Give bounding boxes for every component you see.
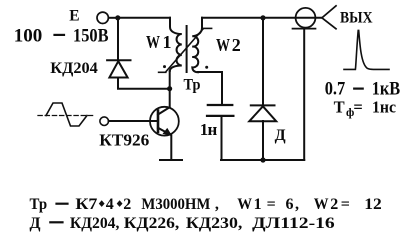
dash line2 <box>50 221 62 223</box>
svg-text:КД230,: КД230, <box>186 215 243 232</box>
polarity dot W2 <box>205 66 208 69</box>
diode D <box>249 105 276 121</box>
svg-text:1нс: 1нс <box>372 97 396 116</box>
svg-text:150В: 150В <box>73 25 109 46</box>
svg-text:2: 2 <box>123 196 131 213</box>
wire W1 to collector (node B) <box>169 71 171 107</box>
node D <box>260 157 265 162</box>
svg-text:н: н <box>208 120 218 139</box>
label W1 <box>146 32 172 52</box>
wire diode D to bottom rail <box>262 121 264 160</box>
terminal output bottom bar <box>293 28 316 30</box>
wire base lead <box>109 120 158 122</box>
svg-text:,: , <box>215 196 219 213</box>
svg-text:=: = <box>353 97 362 116</box>
transformer T1 primary winding W1 <box>170 18 182 71</box>
svg-text:2: 2 <box>330 196 338 213</box>
label parts line 2 <box>30 215 335 232</box>
svg-text:КД204,: КД204, <box>70 215 120 232</box>
input waveform trapezoid <box>46 103 87 126</box>
svg-text:Д: Д <box>275 127 286 144</box>
svg-text:Тр: Тр <box>30 196 48 213</box>
svg-text:=: = <box>267 196 276 213</box>
wire capacitor C1 to bottom rail <box>221 117 223 160</box>
polarity dot W1 <box>163 65 166 68</box>
svg-text:КТ926: КТ926 <box>99 131 149 150</box>
svg-text:1: 1 <box>163 32 172 52</box>
svg-text:6: 6 <box>286 196 294 213</box>
wire node A to diode VD1 <box>117 18 119 60</box>
transformer T1 secondary winding W2 <box>192 18 202 72</box>
wire output vertical <box>303 29 305 160</box>
svg-text:Т: Т <box>334 97 345 116</box>
svg-text:Тр: Тр <box>184 77 201 94</box>
svg-text:Д: Д <box>30 215 41 232</box>
svg-text:М3000НМ: М3000НМ <box>141 196 210 213</box>
svg-text:Е: Е <box>69 7 79 24</box>
terminal input <box>100 117 109 126</box>
bottom rail <box>221 159 304 161</box>
wire emitter to ground <box>170 136 172 161</box>
svg-text:4: 4 <box>106 196 114 213</box>
ground <box>160 159 182 161</box>
svg-text:1кВ: 1кВ <box>372 78 401 99</box>
node C <box>260 15 265 20</box>
transformer adjustment arrow <box>159 28 212 72</box>
svg-text:W: W <box>216 35 230 55</box>
svg-text:К7: К7 <box>75 196 97 213</box>
label W2 <box>216 35 241 55</box>
svg-text:W: W <box>314 196 329 213</box>
dash of 0.7-1кВ <box>354 87 363 89</box>
svg-text:12: 12 <box>364 196 382 213</box>
node A <box>115 15 120 20</box>
capacitor C1 <box>207 105 233 116</box>
label 1н <box>200 120 218 139</box>
svg-text:КД204: КД204 <box>50 60 98 77</box>
svg-text:W: W <box>146 32 160 52</box>
node B <box>167 86 172 91</box>
wire W2 bottom to capacitor C1 <box>198 72 222 104</box>
svg-text:2: 2 <box>232 35 241 55</box>
output arrow symbol <box>322 6 336 29</box>
svg-text:100: 100 <box>14 25 43 46</box>
svg-text:ВЫХ: ВЫХ <box>340 9 373 26</box>
terminal E <box>97 12 108 23</box>
label 100-150V <box>14 25 109 46</box>
svg-text:КД226,: КД226, <box>124 215 180 232</box>
transformer T1 core <box>186 26 188 72</box>
diode VD1 КД204 <box>107 60 130 77</box>
svg-text:W: W <box>237 196 252 213</box>
output pulse waveform <box>344 30 389 69</box>
wire top rail left <box>118 17 170 19</box>
svg-text:,: , <box>295 196 299 213</box>
terminal output <box>296 8 316 28</box>
multiply diamond 1 <box>99 200 105 207</box>
wire top rail right <box>202 17 322 19</box>
multiply diamond 2 <box>117 200 123 207</box>
svg-text:ДЛ112-16: ДЛ112-16 <box>252 215 335 232</box>
label Тф=1нс <box>334 97 396 119</box>
wire E terminal to node A <box>109 17 118 19</box>
dash line1 <box>57 203 68 205</box>
label parts line 1 <box>30 196 382 213</box>
dash of 100-150V <box>55 34 65 36</box>
svg-text:1: 1 <box>254 196 262 213</box>
label 0.7-1кВ <box>325 78 401 99</box>
wire diode VD1 to node B <box>118 78 170 89</box>
transistor VT1 КТ926 <box>150 107 179 136</box>
wire node C to diode D <box>262 18 264 105</box>
input waveform baseline <box>38 115 93 117</box>
svg-text:=: = <box>341 196 350 213</box>
svg-text:0.7: 0.7 <box>325 78 346 99</box>
